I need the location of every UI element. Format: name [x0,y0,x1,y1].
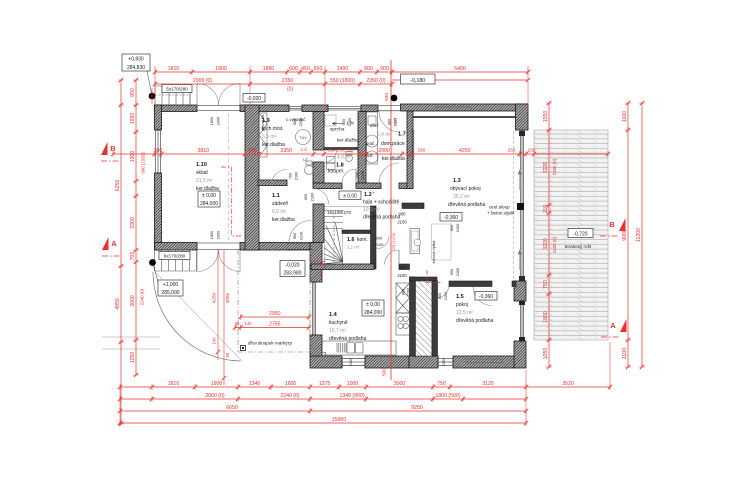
SE corner block [514,341,526,368]
svg-text:250: 250 [528,148,536,153]
room label 1.10 [196,162,219,192]
svg-text:9250: 9250 [411,405,423,411]
svg-text:283,980: 283,980 [283,271,301,277]
svg-text:dom.práce: dom.práce [381,141,405,147]
canopy (markyza) dashed outline [238,250,310,352]
room label 1.1 [272,193,295,223]
svg-text:1050: 1050 [130,113,136,125]
svg-text:900: 900 [449,224,454,231]
hala south wall [311,264,374,270]
svg-text:-0,020: -0,020 [247,96,261,102]
svg-text:1100: 1100 [622,348,628,359]
level box -0,720 terrace [568,229,593,238]
svg-text:2100: 2100 [347,117,352,126]
svg-text:4250: 4250 [212,292,217,303]
svg-text:(0): (0) [287,87,293,93]
svg-text:1250: 1250 [130,352,136,364]
svg-text:B: B [609,220,615,229]
bottom wall kitchen-right [365,356,409,368]
svg-text:140: 140 [245,321,253,326]
furniture outline living room [432,224,452,260]
svg-text:2100: 2100 [455,267,460,276]
kitchen west wall lower [310,335,322,356]
entry door 1.7 top [379,111,400,132]
level box +-0,00 / 284,000 garage [198,191,220,207]
section marker B [101,142,108,155]
svg-text:1375: 1375 [319,381,331,387]
svg-text:1.Č: 1.Č [301,147,308,152]
pantry shelving [416,281,433,356]
door thresholds [197,106,313,250]
svg-text:koupel.: koupel. [328,169,344,175]
kitchen west window [312,282,317,335]
komora top wall [342,230,371,234]
svg-text:900: 900 [380,66,389,72]
svg-text:-0,180: -0,180 [410,78,425,84]
top dim chain row 2 [153,78,394,87]
hala/1.3 partial wall [402,203,424,209]
svg-text:3810: 3810 [197,148,209,154]
svg-text:dřevěná podlaha: dřevěná podlaha [363,215,400,221]
stub wall at kitchen entry [399,264,410,270]
exterior stair 6x170/280 at entry [155,250,197,271]
svg-text:600: 600 [289,66,298,72]
svg-text:-0,360: -0,360 [479,294,493,300]
sprcha/koupel divider [324,148,358,150]
svg-text:5400: 5400 [454,66,466,72]
svg-text:1.10: 1.10 [196,162,207,168]
interior dim chain [111,148,610,157]
garage left wall lower [155,173,162,250]
svg-text:140: 140 [212,337,217,345]
survey point entry [149,259,156,266]
svg-text:1.4: 1.4 [329,312,338,318]
svg-text:16x180/270: 16x180/270 [327,210,351,215]
svg-text:-0,360: -0,360 [444,215,458,221]
bottom wall entry strip [240,243,313,251]
svg-text:ocel.sloup: ocel.sloup [489,205,510,210]
svg-text:sklad: sklad [196,170,208,176]
svg-text:1810: 1810 [168,381,180,387]
svg-text:terasový rošt: terasový rošt [565,244,592,249]
svg-text:700: 700 [130,252,136,261]
level box +-0,00 hala [339,191,361,200]
room label 1.5 [456,294,493,324]
door hala to kitchen [385,250,400,265]
bottom dim row3 [118,408,528,414]
svg-text:2100: 2100 [441,357,446,366]
svg-text:obývací pokoj: obývací pokoj [450,186,481,192]
glazing opening arrows [518,170,521,270]
svg-text:900: 900 [341,118,346,125]
top-right corner return [516,104,529,130]
top wall over entry [240,105,289,112]
level box -0,360 living [440,213,462,222]
svg-text:900: 900 [292,232,297,239]
svg-text:284,830: 284,830 [127,65,145,71]
1.3 kitchen cabinet at hala wall [410,229,420,254]
radiators [437,107,471,111]
svg-text:2755: 2755 [269,321,281,327]
svg-text:B: B [110,144,116,153]
svg-text:+0,830: +0,830 [128,57,144,63]
svg-text:2240 (0): 2240 (0) [280,393,300,399]
door 1.1 to house (south) [289,221,311,243]
svg-text:11200: 11200 [636,228,642,242]
bottom wall kitchen-left [310,356,342,368]
svg-text:3220: 3220 [543,238,549,250]
hala north wall west [313,183,342,189]
svg-text:300: 300 [154,148,163,154]
glazing inner dashed line [513,131,515,281]
svg-text:± 0,00: ± 0,00 [343,194,357,200]
garage door guide dashed line [227,113,229,242]
svg-text:6250: 6250 [115,180,121,192]
svg-text:-0,720: -0,720 [573,232,587,238]
svg-text:3000: 3000 [130,295,136,307]
svg-text:30,2 m²: 30,2 m² [453,194,470,200]
level box -0,180 [401,74,436,84]
terrace chain [543,101,552,369]
garage bottom wall [155,243,198,251]
room label 1.4 [329,312,366,342]
garage west window [155,130,162,173]
svg-text:1900: 1900 [215,66,227,72]
svg-text:500: 500 [382,368,388,376]
section marker A [620,319,627,332]
svg-text:hala + schodiště: hala + schodiště [363,200,399,206]
bottom wall 1.5 [453,356,514,368]
wall 1.1/koupel lower [313,162,324,183]
canopy post (sloupek) [241,346,246,351]
svg-text:2100: 2100 [348,357,353,366]
dim 2950 [238,311,311,320]
dim 2755 [233,321,311,330]
svg-text:2100: 2100 [397,273,407,278]
svg-text:1.6: 1.6 [347,237,355,243]
svg-text:1900: 1900 [130,151,136,163]
svg-text:dřev.sloupek markýzy: dřev.sloupek markýzy [248,341,293,346]
1.9 fixtures: TUV boiler, shelf [296,130,311,145]
svg-text:2000: 2000 [216,116,221,125]
bottom wall under pantry [409,356,438,368]
svg-text:3300: 3300 [130,217,136,229]
svg-text:2400 (0): 2400 (0) [552,158,557,175]
svg-text:55: 55 [225,352,230,357]
svg-text:± 0,00: ± 0,00 [202,193,216,199]
svg-text:2000 (0): 2000 (0) [193,78,213,84]
svg-text:suš.: suš. [366,153,374,158]
svg-text:± 0,00: ± 0,00 [366,302,380,308]
1.9/1.1 divider [258,180,287,186]
svg-text:900: 900 [303,193,308,200]
1.7 fixtures: sink counter, washer, dryer [366,112,378,164]
garage top-left corner [155,105,162,130]
svg-text:dřevěná podlaha: dřevěná podlaha [329,336,366,342]
svg-text:3000: 3000 [394,381,406,387]
svg-text:1340: 1340 [249,381,261,387]
svg-text:284,000: 284,000 [364,310,382,316]
svg-text:55: 55 [235,321,240,326]
svg-text:1900: 1900 [211,381,223,387]
svg-text:750: 750 [543,280,549,289]
svg-text:2000: 2000 [378,148,390,154]
svg-text:2100: 2100 [375,242,385,247]
svg-text:2100: 2100 [406,287,411,296]
svg-text:250 1650 100: 250 1650 100 [328,148,354,153]
exterior stair 5x170/280 top-left [155,86,190,105]
svg-text:UT: UT [303,158,309,162]
svg-text:250: 250 [418,148,426,153]
svg-text:-0,020: -0,020 [285,263,299,269]
door pantry corridor [438,287,449,298]
axis line x=391 (red) [390,60,392,380]
hala north wall east [399,183,413,189]
section marker B [619,218,626,231]
window over 1.9 [289,106,302,111]
kitchen south window [342,358,365,367]
svg-text:dřevěná podlaha: dřevěná podlaha [456,318,493,324]
svg-text:tech.míst.: tech.míst. [262,126,284,132]
bottom dim row1 [118,381,612,390]
svg-text:6x170/280: 6x170/280 [164,254,186,259]
survey point top-left [149,93,156,100]
svg-text:1600: 1600 [285,381,297,387]
door to 1.9 [271,170,287,186]
svg-text:600: 600 [376,236,383,241]
svg-text:6,5 m²: 6,5 m² [262,134,277,140]
svg-text:ker.dlažba: ker.dlažba [272,217,295,223]
level box +-0,00 / 284,000 kitchen [362,300,384,316]
svg-text:2350 (0): 2350 (0) [366,78,386,84]
svg-text:1100: 1100 [622,111,628,122]
shower tray [325,115,336,126]
svg-text:900: 900 [449,268,454,275]
svg-text:dřez: dřez [370,123,379,128]
1.5 north wall stub [512,281,516,287]
entry double door bottom (to exterior) [197,250,219,272]
svg-text:1,1 m²: 1,1 m² [347,245,360,250]
1.5 south window [438,358,453,367]
door komora [376,236,389,249]
svg-text:3125: 3125 [482,381,494,387]
svg-text:přívod SK: přívod SK [261,114,265,131]
svg-text:1800: 1800 [209,116,214,125]
svg-text:1340 (900): 1340 (900) [339,393,364,399]
svg-text:800: 800 [437,292,442,299]
svg-text:1800: 1800 [209,230,214,239]
kitchen west wall upper [310,243,322,283]
svg-text:4950: 4950 [115,298,121,310]
section marker A [102,237,109,250]
svg-text:500: 500 [384,93,390,101]
right 9000 chain [622,101,631,369]
svg-text:250: 250 [508,148,516,153]
level box +0,830 [122,54,150,71]
svg-text:prač.: prač. [366,141,375,146]
svg-text:950: 950 [130,88,136,97]
svg-text:1000: 1000 [347,381,359,387]
svg-text:2350: 2350 [282,78,294,84]
svg-text:pokoj: pokoj [456,302,468,308]
svg-text:450: 450 [301,66,310,72]
svg-text:1900 (500): 1900 (500) [435,393,460,399]
extension lines bottom [120,342,610,425]
svg-text:dřevěná podlaha: dřevěná podlaha [448,202,485,208]
svg-text:3220: 3220 [543,162,549,174]
svg-text:5,4 m²: 5,4 m² [377,132,392,138]
svg-text:1800: 1800 [543,311,549,323]
right 11200 chain [636,101,645,369]
svg-text:2350: 2350 [280,148,292,154]
svg-text:4,0 m²: 4,0 m² [337,155,352,161]
level box -0,360 1.5 [475,292,497,301]
svg-text:3520: 3520 [562,381,574,387]
svg-text:2100: 2100 [298,117,303,126]
left outer chain [115,78,124,426]
door hala to 1.7 [379,163,399,183]
svg-text:kom.: kom. [357,237,368,243]
1.5 north wall [449,281,492,287]
hala north wall mid [356,183,381,189]
1.1 WC [305,166,314,175]
top wall seg 2 [361,105,378,112]
svg-text:12,5 m²: 12,5 m² [456,310,473,316]
svg-text:1.2: 1.2 [364,192,372,198]
window over sprcha [328,106,361,111]
svg-text:sprcha: sprcha [330,127,345,133]
section B jog in garage [221,167,242,236]
svg-text:800: 800 [364,66,373,72]
svg-text:285,000: 285,000 [161,290,179,296]
room label 1.9 [262,118,285,148]
sprcha shower drain arrow [332,123,343,125]
svg-text:A: A [610,321,616,330]
svg-text:ker.dlažba: ker.dlažba [196,186,219,192]
plot boundary lines left [102,337,160,349]
kitchen counter with sink [322,341,397,356]
koupel fixtures: tub + wc [327,152,353,170]
svg-text:660: 660 [314,66,323,72]
svg-text:2100: 2100 [393,117,398,126]
svg-text:600 (1550): 600 (1550) [141,152,146,174]
extension lines top [155,66,528,112]
svg-text:15,7 m²: 15,7 m² [329,328,346,334]
svg-text:700: 700 [355,171,360,178]
level box -0,020 / 283,980 [280,261,305,277]
1.5 east window [520,301,525,341]
svg-text:4055: 4055 [225,292,230,303]
svg-text:700: 700 [288,172,293,179]
svg-text:+ beton.výplň: + beton.výplň [487,211,515,216]
pantry west wall [410,277,416,356]
garage double door top (to exterior) [197,84,219,106]
svg-text:440: 440 [248,148,257,154]
svg-text:1890: 1890 [263,66,275,72]
door to 1.5 [473,287,492,306]
living room top wall [401,104,529,111]
svg-text:ker.dlažba: ker.dlažba [382,156,405,162]
svg-text:ker.dlažba: ker.dlažba [337,138,359,144]
level box -0,020 top [243,94,265,103]
svg-text:zádveří: zádveří [272,201,289,207]
door koupel from hala [342,169,356,183]
terrace decking (terasovy rost) [534,130,608,340]
svg-text:2140: 2140 [299,231,304,240]
gate swing arc bottom-left [153,272,240,361]
svg-text:2400 (0): 2400 (0) [552,236,557,253]
svg-text:900: 900 [399,265,407,270]
stair label 6x170/280 [159,252,190,260]
section line jog at kitchen window [310,262,326,278]
svg-text:21,5 m²: 21,5 m² [196,178,213,184]
door to sprcha [324,150,337,163]
svg-text:750: 750 [437,381,446,387]
svg-text:2100: 2100 [294,171,299,180]
svg-text:1.5: 1.5 [456,294,464,300]
svg-text:10,3 m²: 10,3 m² [363,207,380,213]
svg-text:900: 900 [292,118,297,125]
entry door opening 1.7 [378,106,400,111]
garage east wall [245,105,259,250]
level box +1,000 [158,280,183,296]
svg-text:1.3: 1.3 [453,178,461,184]
svg-text:kchová výška: kchová výška [432,240,436,264]
glazing mullions [519,131,525,341]
svg-text:2100: 2100 [360,170,365,179]
svg-text:A: A [111,239,117,248]
stair label 5x170/280 [162,85,192,93]
svg-text:6650: 6650 [226,405,238,411]
svg-text:6,0 m²: 6,0 m² [272,209,287,215]
survey point top-mid [391,95,398,102]
svg-text:2100: 2100 [310,192,315,201]
koupel east wall [358,112,366,184]
radiator 1.3 west [411,130,414,160]
1.5 west wall [432,281,438,356]
svg-text:2100: 2100 [455,223,460,232]
top wall seg [302,105,328,112]
svg-text:4250: 4250 [459,148,471,154]
steel column (ocel.sloup) [517,203,524,210]
svg-text:1.7: 1.7 [398,132,406,138]
svg-text:5x170/280: 5x170/280 [166,87,188,92]
svg-text:ker.dlažba: ker.dlažba [262,142,285,148]
kitchen tall units + hob [396,283,410,335]
svg-text:15900: 15900 [332,417,347,423]
svg-text:1490: 1490 [337,66,349,72]
svg-text:1810: 1810 [168,66,180,72]
left inner chain [130,78,139,377]
svg-text:725 (1470): 725 (1470) [392,232,396,251]
svg-text:1050: 1050 [543,111,549,123]
top dim chain row 1 [153,66,530,75]
svg-text:2100: 2100 [443,291,448,300]
pantry top wall [410,277,438,281]
bottom dim row4 [118,420,528,426]
section line jog at 1.5 door [427,270,441,283]
svg-text:110: 110 [543,205,549,213]
bottom dim row2 [118,396,528,402]
1.5 NE wall block [514,281,526,301]
svg-text:2000: 2000 [216,230,221,239]
red marks misc [151,88,153,104]
door hala to 1.2 entry [313,189,329,205]
stair west wall upper [313,204,324,243]
wall 1.1/sprcha upper [313,112,324,151]
svg-text:1050: 1050 [543,348,549,360]
wall 1.7/1.3 [407,111,413,189]
